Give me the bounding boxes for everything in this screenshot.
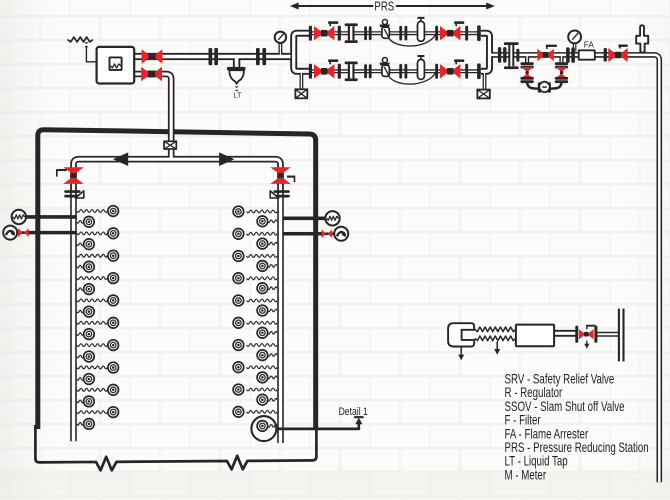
svg-text:PRS: PRS [374, 0, 394, 14]
svg-text:FA: FA [584, 40, 595, 50]
svg-text:Detail 1: Detail 1 [339, 406, 368, 418]
svg-text:LT: LT [234, 90, 243, 99]
svg-text:M - Meter: M - Meter [505, 467, 547, 483]
